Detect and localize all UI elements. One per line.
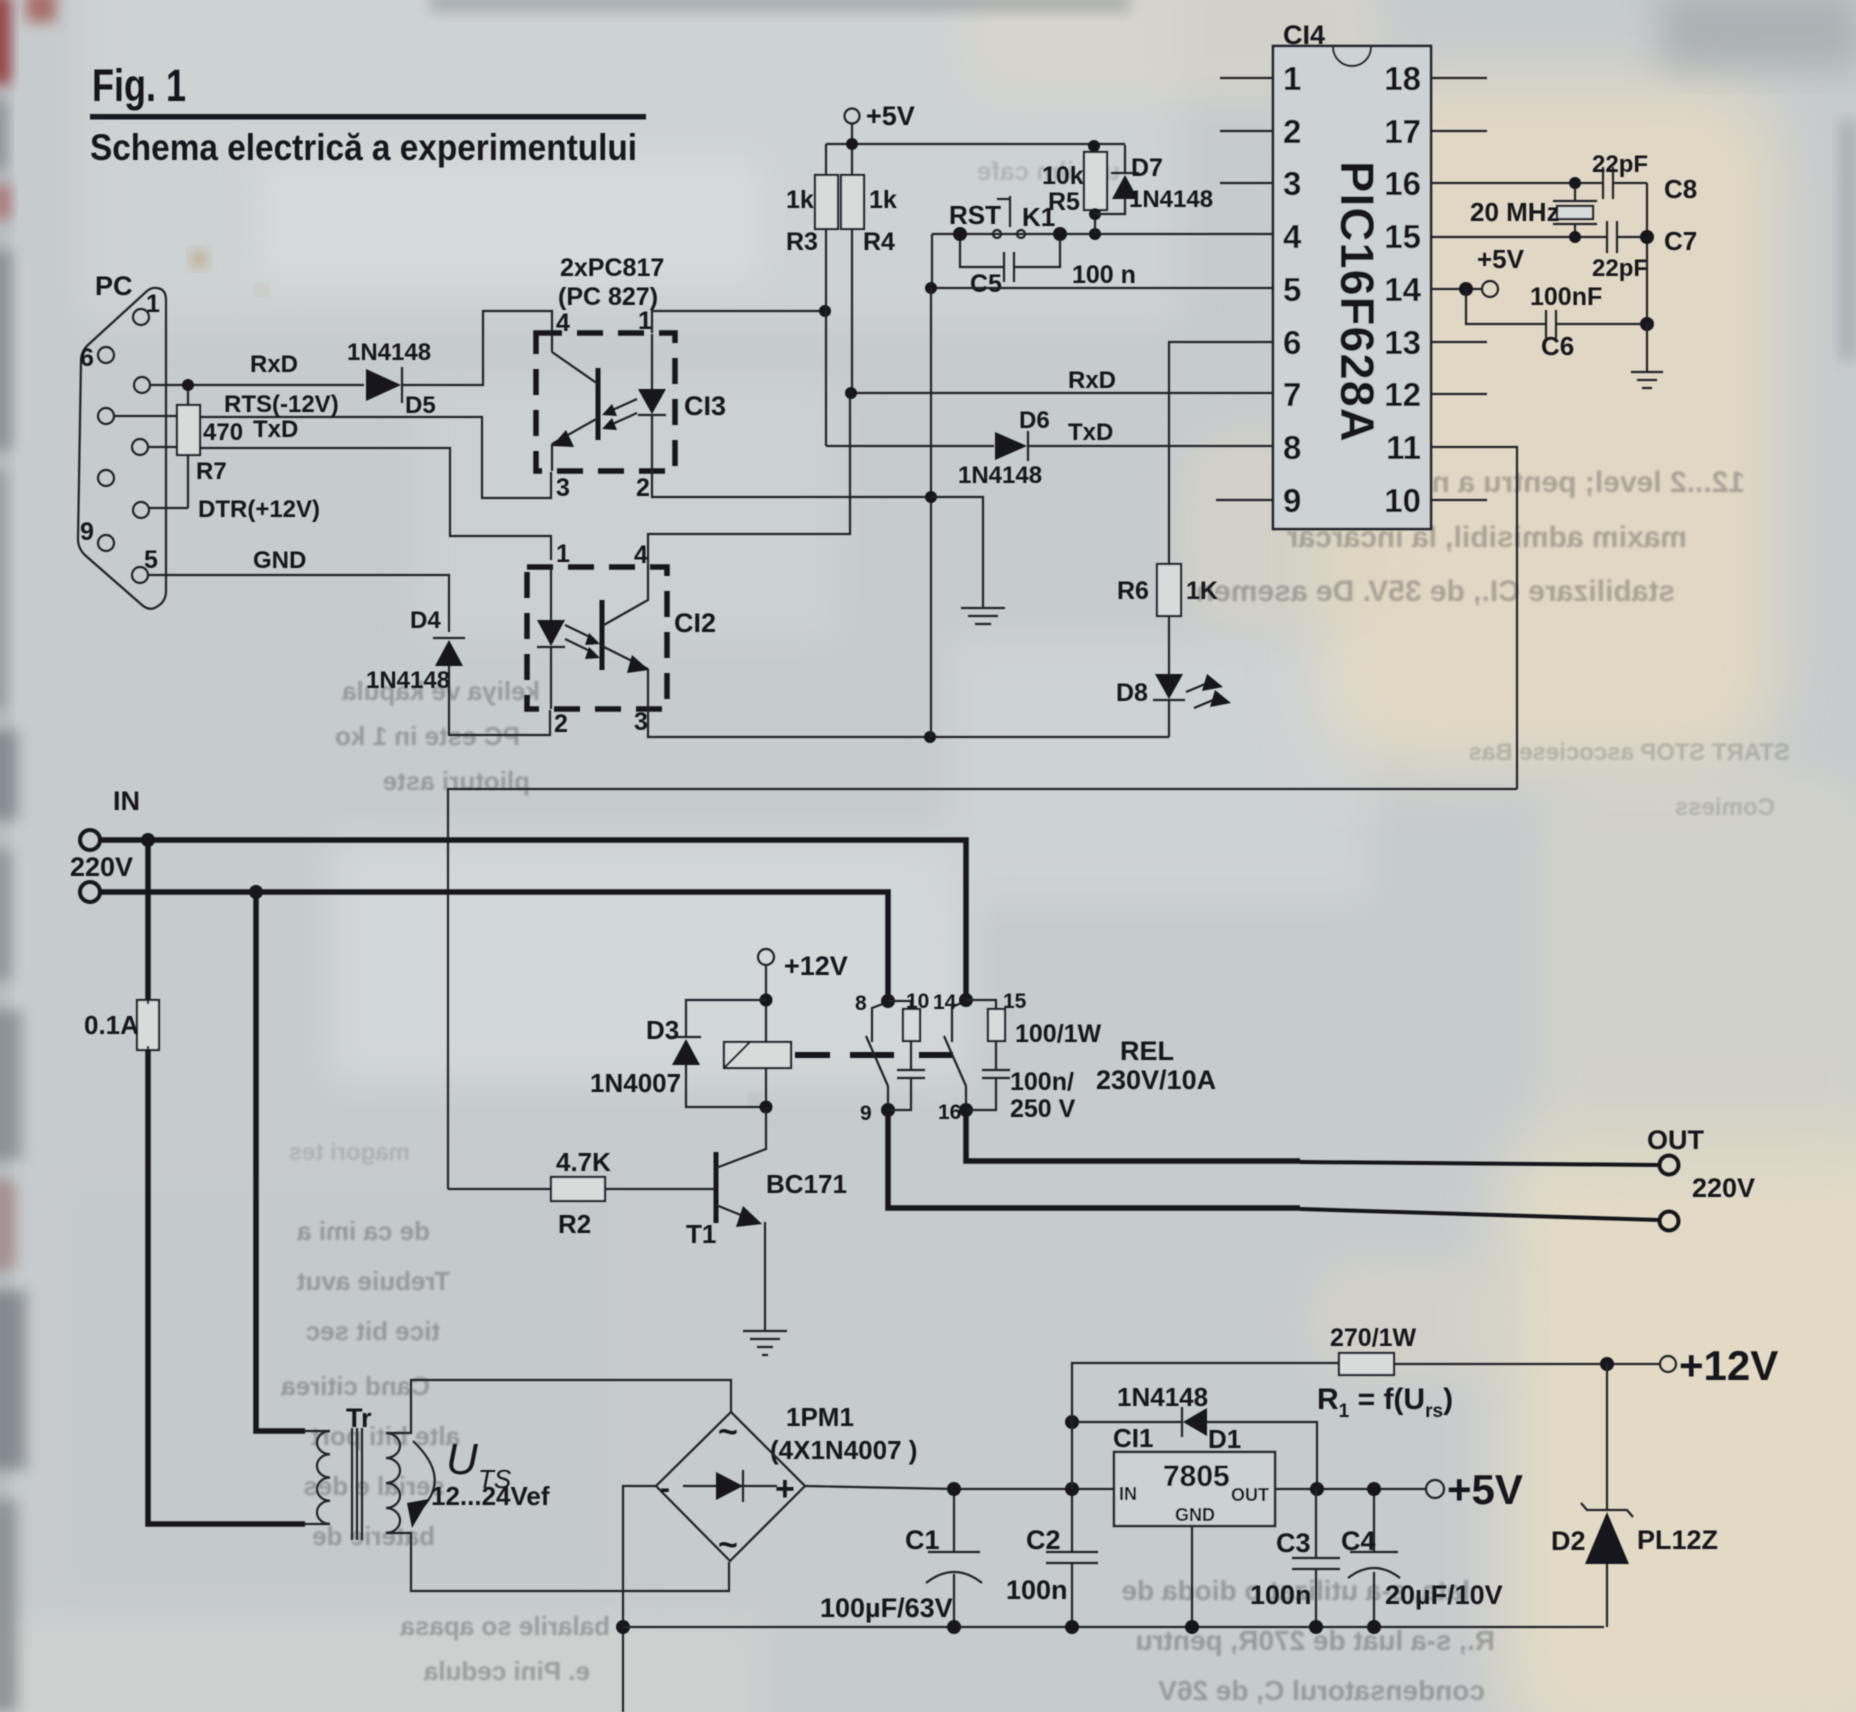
svg-text:5: 5 bbox=[144, 546, 158, 574]
svg-text:10: 10 bbox=[1384, 482, 1421, 519]
svg-text:20 MHz: 20 MHz bbox=[1470, 197, 1560, 227]
CI4 notch bbox=[1333, 47, 1371, 66]
svg-text:RST: RST bbox=[949, 200, 1001, 230]
CI3 dashed body bbox=[536, 333, 675, 471]
node RST left bbox=[953, 227, 967, 241]
svg-text:100 n: 100 n bbox=[1072, 261, 1136, 289]
+5V output terminal bbox=[1426, 1480, 1444, 1498]
CI3 phototransistor bbox=[551, 334, 553, 471]
wire ground bus down bbox=[930, 288, 932, 737]
svg-text:+5V: +5V bbox=[866, 101, 915, 131]
svg-text:Fig. 1: Fig. 1 bbox=[92, 60, 186, 111]
diode D7 1N4148 bbox=[1095, 145, 1125, 214]
svg-text:9: 9 bbox=[80, 518, 94, 546]
resistor R7 470 bbox=[187, 391, 189, 405]
resistor R5 10k bbox=[1084, 152, 1107, 210]
svg-text:5: 5 bbox=[1283, 271, 1301, 308]
svg-text:CI3: CI3 bbox=[684, 391, 726, 421]
svg-text:2: 2 bbox=[636, 474, 650, 502]
svg-text:Comiess: Comiess bbox=[1675, 794, 1775, 821]
+5V terminal bbox=[845, 109, 860, 124]
svg-text:de ca imi a: de ca imi a bbox=[297, 1216, 430, 1246]
pin 8 bbox=[98, 470, 114, 486]
node CI3 pin1 / R3 bbox=[819, 305, 831, 317]
pin 17 stub bbox=[1431, 130, 1487, 132]
svg-text:BC171: BC171 bbox=[766, 1169, 847, 1199]
svg-text:GND: GND bbox=[1175, 1505, 1215, 1525]
svg-text:17: 17 bbox=[1384, 113, 1421, 150]
svg-text:6: 6 bbox=[80, 344, 94, 372]
svg-text:magori tes: magori tes bbox=[289, 1139, 410, 1166]
svg-text:C7: C7 bbox=[1664, 226, 1697, 256]
IN terminal L bbox=[80, 830, 100, 850]
svg-text:100nF: 100nF bbox=[1530, 283, 1602, 311]
svg-text:PL12Z: PL12Z bbox=[1637, 1525, 1718, 1555]
wire pin16 to C8/crystal bbox=[1431, 182, 1647, 184]
node coil bottom / T1 collector bbox=[760, 1101, 773, 1114]
svg-text:8: 8 bbox=[1283, 429, 1301, 466]
diode D5 1N4148 bbox=[366, 369, 401, 401]
svg-text:Trebuie avut: Trebuie avut bbox=[297, 1266, 450, 1296]
OUT terminal N bbox=[1660, 1212, 1679, 1231]
node pole A top bbox=[959, 993, 973, 1007]
resistor R6 1K bbox=[1157, 564, 1181, 616]
wire +12V to coil bbox=[765, 965, 767, 1042]
svg-text:1N4007: 1N4007 bbox=[590, 1068, 681, 1098]
title underline bbox=[90, 114, 646, 120]
svg-text:(4X1N4007 ): (4X1N4007 ) bbox=[770, 1435, 917, 1465]
svg-text:D3: D3 bbox=[646, 1015, 679, 1045]
CI2 LED bbox=[550, 567, 552, 709]
ground symbol (logic) bbox=[961, 608, 1005, 624]
svg-text:RxD: RxD bbox=[250, 351, 298, 378]
node RxD/R7 junction bbox=[182, 379, 194, 391]
relay coil bbox=[724, 1042, 791, 1068]
wire +5V terminal to rail bbox=[851, 124, 853, 144]
node pole B top bbox=[881, 994, 895, 1008]
D8 light arrows bbox=[1186, 682, 1218, 708]
svg-text:1N4148: 1N4148 bbox=[366, 667, 450, 694]
svg-text:+5V: +5V bbox=[1447, 1466, 1523, 1513]
svg-text:OUT: OUT bbox=[1647, 1125, 1705, 1155]
wire IN node to +12V rail bbox=[1072, 1363, 1660, 1489]
wire PIC pin5 VSS to ground bbox=[930, 287, 1273, 289]
fuse F1 0.1A bbox=[145, 840, 151, 1000]
Tr primary winding bbox=[305, 1431, 330, 1524]
svg-text:REL: REL bbox=[1120, 1036, 1174, 1066]
diode D6 1N4148 bbox=[995, 432, 1027, 460]
node C7/ground leg bbox=[1640, 230, 1654, 244]
svg-text:9: 9 bbox=[860, 1102, 872, 1125]
svg-text:+12V: +12V bbox=[784, 951, 848, 981]
wire D5 to CI3 pin4 bbox=[402, 311, 552, 385]
svg-text:+: + bbox=[775, 1470, 795, 1508]
node fuse tap bbox=[141, 833, 155, 847]
svg-text:4: 4 bbox=[634, 541, 648, 569]
CI4 body bbox=[1273, 46, 1431, 529]
svg-text:100/1W: 100/1W bbox=[1015, 1020, 1102, 1048]
svg-text:e. Pini cedula: e. Pini cedula bbox=[423, 1656, 590, 1686]
svg-text:12: 12 bbox=[1384, 376, 1421, 413]
wire +5V rail bbox=[826, 143, 1125, 145]
switch K1 contacts bbox=[993, 230, 1001, 238]
svg-text:D6: D6 bbox=[1019, 407, 1050, 434]
node crystal bottom bbox=[1569, 231, 1581, 243]
svg-text:RTS(-12V): RTS(-12V) bbox=[224, 391, 339, 418]
crystal X1 20 MHz bbox=[1553, 189, 1597, 237]
svg-text:22pF: 22pF bbox=[1592, 255, 1648, 282]
svg-text:1N4148: 1N4148 bbox=[1117, 1382, 1208, 1412]
wire 7805 GND to 0V bbox=[1191, 1526, 1193, 1627]
svg-text:230V/10A: 230V/10A bbox=[1096, 1065, 1216, 1095]
node RST right bbox=[1053, 227, 1067, 241]
pin 7 (RTS) bbox=[98, 408, 114, 424]
node pole B bottom (9) bbox=[881, 1103, 895, 1117]
svg-text:C5: C5 bbox=[970, 270, 1002, 298]
svg-text:1: 1 bbox=[556, 540, 570, 568]
wire pin11 rail to R2 bbox=[448, 789, 1517, 1189]
svg-text:C6: C6 bbox=[1541, 331, 1574, 361]
svg-text:6: 6 bbox=[1283, 324, 1301, 361]
svg-text:IN: IN bbox=[1119, 1484, 1137, 1504]
svg-text:270/1W: 270/1W bbox=[1330, 1324, 1417, 1352]
svg-text:2: 2 bbox=[1283, 113, 1301, 150]
svg-text:R5: R5 bbox=[1048, 188, 1080, 216]
svg-text:Schema electrică a experimentu: Schema electrică a experimentului bbox=[90, 127, 637, 168]
node C6/ground leg bbox=[1640, 317, 1654, 331]
capacitor C7 22pF bbox=[1607, 221, 1617, 253]
node pin5/ground bus bbox=[925, 282, 937, 294]
svg-text:DTR(+12V): DTR(+12V) bbox=[198, 496, 320, 523]
svg-text:2xPC817: 2xPC817 bbox=[560, 254, 664, 282]
diode D3 1N4007 bbox=[686, 1000, 766, 1036]
svg-text:4: 4 bbox=[556, 309, 570, 337]
relay contact pole A terminal 8 bbox=[952, 1001, 966, 1042]
svg-text:9: 9 bbox=[1283, 482, 1301, 519]
svg-text:D5: D5 bbox=[405, 392, 436, 419]
wire 220V live bbox=[101, 840, 966, 1000]
svg-text:10: 10 bbox=[906, 990, 929, 1013]
svg-text:stabilizare CI., de 35V. De as: stabilizare CI., de 35V. De asemen bbox=[1196, 575, 1675, 608]
pin 9 bbox=[98, 535, 114, 551]
capacitor C2 100n bbox=[1071, 1489, 1073, 1552]
svg-text:+5V: +5V bbox=[1477, 244, 1525, 274]
wire RxD to PIC pin7 bbox=[852, 392, 1273, 394]
svg-text:3: 3 bbox=[556, 474, 570, 502]
wire RxD from DB9 pin2 to D5 bbox=[150, 384, 364, 386]
wire TxD from DB9 pin3 to CI2 pin1 bbox=[148, 447, 551, 560]
svg-text:C1: C1 bbox=[905, 1525, 940, 1555]
stains bbox=[192, 252, 206, 266]
svg-text:R3: R3 bbox=[786, 228, 818, 256]
snubber A capacitor 100n/250V bbox=[982, 1070, 1010, 1078]
CI2 dashed body bbox=[527, 567, 667, 709]
svg-text:TxD: TxD bbox=[253, 416, 298, 443]
svg-text:+12V: +12V bbox=[1679, 1342, 1778, 1389]
wire RTS from DB9 pin7 to CI3 pin3 bbox=[114, 416, 551, 498]
svg-text:7: 7 bbox=[1283, 376, 1301, 413]
svg-text:CI2: CI2 bbox=[674, 608, 716, 638]
ground symbol (oscillator) bbox=[1631, 372, 1663, 388]
svg-text:16: 16 bbox=[938, 1101, 961, 1124]
pin 2 stub bbox=[1220, 130, 1273, 132]
wire bridge plus to regulator input bbox=[805, 1486, 1114, 1489]
pin 3 (TxD) bbox=[132, 439, 148, 455]
node crystal top bbox=[1569, 177, 1581, 189]
svg-text:TxD: TxD bbox=[1068, 419, 1113, 446]
CI3 light arrows bbox=[608, 399, 637, 426]
pin 9 stub bbox=[1216, 499, 1273, 501]
svg-text:1N4148: 1N4148 bbox=[1129, 186, 1213, 213]
snubber B capacitor bbox=[897, 1070, 925, 1078]
pin 3 stub bbox=[1220, 182, 1273, 184]
pin 1 bbox=[133, 309, 149, 325]
wire 7805 OUT +5V bbox=[1275, 1488, 1426, 1490]
+12V terminal bbox=[1660, 1356, 1676, 1372]
wire TxD/D6 to PIC pin8 bbox=[826, 445, 1273, 447]
+12V terminal (relay) bbox=[758, 949, 774, 965]
snubber A resistor 100/1W bbox=[966, 1000, 996, 1009]
pin 6 wire to R6/D8 bbox=[1169, 342, 1273, 564]
wire to oscillator ground bbox=[1646, 324, 1648, 371]
pin 4 (DTR) bbox=[133, 502, 149, 518]
node pole A bottom (16) bbox=[959, 1103, 973, 1117]
svg-text:Tr: Tr bbox=[346, 1403, 372, 1433]
svg-text:R2: R2 bbox=[558, 1209, 591, 1239]
svg-text:U: U bbox=[446, 1435, 478, 1484]
svg-text:100µF/63V: 100µF/63V bbox=[820, 1593, 953, 1623]
svg-text:T1: T1 bbox=[686, 1219, 716, 1249]
svg-text:D4: D4 bbox=[410, 607, 441, 634]
capacitor C6 100nF bbox=[1466, 289, 1647, 324]
pin 18 stub bbox=[1431, 77, 1487, 79]
cream show-through patches bbox=[1320, 80, 1780, 770]
capacitor C8 22pF bbox=[1603, 167, 1613, 199]
node pin14 bbox=[1459, 282, 1473, 296]
pin 13 stub bbox=[1431, 341, 1487, 343]
svg-text:PIC16F628A: PIC16F628A bbox=[1331, 161, 1384, 443]
snubber B resistor bbox=[888, 1001, 911, 1009]
capacitor C3 100n bbox=[1292, 1489, 1340, 1627]
wire CI2 pin4 collector to RxD net bbox=[648, 393, 850, 567]
svg-text:D2: D2 bbox=[1551, 1526, 1586, 1556]
svg-text:1k: 1k bbox=[786, 186, 814, 214]
wire RST to ground bus bbox=[931, 234, 933, 288]
transistor T1 BC171 bbox=[714, 1152, 719, 1223]
svg-text:baterie de: baterie de bbox=[312, 1521, 435, 1551]
pin 10 stub bbox=[1431, 499, 1487, 501]
svg-text:OUT: OUT bbox=[1231, 1485, 1269, 1505]
node 0V rail / bridge bbox=[616, 1620, 630, 1634]
node ground bus / CI2 pin3 bbox=[924, 731, 936, 743]
relay contact pole A arm bbox=[944, 1036, 966, 1086]
node R5/D7 junction bbox=[1089, 208, 1101, 220]
svg-text:100n: 100n bbox=[1006, 1575, 1068, 1605]
svg-text:12...24Vef: 12...24Vef bbox=[431, 1481, 550, 1511]
svg-text:GND: GND bbox=[253, 547, 306, 574]
relay contact pole B arm bbox=[866, 1036, 888, 1086]
svg-text:1k: 1k bbox=[869, 186, 897, 214]
svg-text:C3: C3 bbox=[1276, 1528, 1311, 1558]
svg-text:20µF/10V: 20µF/10V bbox=[1385, 1580, 1503, 1610]
OUT terminal L bbox=[1660, 1156, 1679, 1175]
wire oscillator ground leg bbox=[1646, 183, 1648, 324]
capacitor C5 100n bbox=[960, 241, 1060, 267]
capacitor C4 20uF/10V bbox=[1373, 1489, 1375, 1552]
wire R4 bottom to RxD net bbox=[851, 229, 853, 393]
svg-text:15: 15 bbox=[1003, 990, 1027, 1013]
svg-text:RxD: RxD bbox=[1068, 367, 1116, 394]
node D2 top bbox=[1600, 1357, 1614, 1371]
+5V terminal at pin14 bbox=[1482, 281, 1498, 297]
ground symbol (T1 emitter) bbox=[743, 1331, 787, 1355]
wire GND from DB9 pin5 to D4 bbox=[148, 575, 449, 632]
svg-text:tice bit sec: tice bit sec bbox=[306, 1316, 440, 1346]
U_TS voltage arrow bbox=[413, 1441, 435, 1509]
svg-text:~: ~ bbox=[718, 1413, 738, 1451]
node R5/D7 bottom on MCLR bbox=[1089, 228, 1101, 240]
wire pin14 VDD bbox=[1431, 288, 1481, 290]
CI2 phototransistor bbox=[600, 600, 605, 670]
svg-text:14: 14 bbox=[1384, 271, 1421, 308]
resistor R2 4.7K bbox=[448, 1188, 551, 1190]
svg-text:3: 3 bbox=[1283, 165, 1301, 202]
svg-text:PC: PC bbox=[95, 271, 133, 301]
0V rail bbox=[623, 1626, 1604, 1628]
resistor R3 1k bbox=[825, 144, 827, 175]
svg-text:1K: 1K bbox=[1186, 577, 1218, 605]
svg-text:condensatorul C, de 26V: condensatorul C, de 26V bbox=[1158, 1675, 1485, 1706]
pin 12 stub bbox=[1431, 393, 1487, 395]
svg-text:Cand citirea: Cand citirea bbox=[281, 1371, 430, 1401]
node transformer tap bbox=[249, 885, 263, 899]
wire 220V neutral bbox=[101, 892, 888, 1001]
svg-text:1PM1: 1PM1 bbox=[786, 1402, 854, 1432]
svg-text:13: 13 bbox=[1384, 324, 1421, 361]
svg-text:22pF: 22pF bbox=[1592, 151, 1648, 178]
node coil/D3 top bbox=[760, 994, 773, 1007]
wire secondary top to bridge bbox=[386, 1380, 731, 1433]
svg-text:16: 16 bbox=[1384, 165, 1421, 202]
svg-text:470: 470 bbox=[203, 419, 243, 446]
svg-text:3: 3 bbox=[634, 708, 648, 736]
pin 1 stub bbox=[1220, 77, 1273, 79]
pin 11 wire to relay driver rail bbox=[1431, 447, 1517, 789]
svg-text:250 V: 250 V bbox=[1010, 1095, 1076, 1123]
svg-text:R4: R4 bbox=[863, 228, 895, 256]
svg-text:11: 11 bbox=[1386, 429, 1421, 466]
svg-text:8: 8 bbox=[855, 992, 867, 1015]
svg-text:1N4148: 1N4148 bbox=[958, 462, 1042, 489]
svg-text:~: ~ bbox=[718, 1526, 738, 1564]
wire R3 bottom to D6/TxD net bbox=[825, 229, 827, 446]
wire secondary bottom to bridge bbox=[386, 1533, 729, 1591]
svg-text:C8: C8 bbox=[1664, 174, 1697, 204]
pin 2 (RxD) bbox=[134, 377, 150, 393]
svg-text:220V: 220V bbox=[1692, 1173, 1755, 1203]
node +5V/R5 bbox=[1088, 140, 1100, 152]
CI3 LED bbox=[651, 334, 653, 471]
svg-text:15: 15 bbox=[1384, 218, 1421, 255]
svg-text:C2: C2 bbox=[1026, 1525, 1061, 1555]
svg-text:1N4148: 1N4148 bbox=[347, 339, 431, 366]
svg-text:1: 1 bbox=[638, 307, 652, 335]
bridge diamond bbox=[656, 1412, 805, 1561]
svg-text:10k: 10k bbox=[1042, 162, 1084, 190]
svg-text:IN: IN bbox=[113, 786, 140, 816]
svg-text:2: 2 bbox=[554, 710, 568, 738]
ghost show-through text (mirrored print from reverse page) bbox=[281, 156, 1790, 1706]
svg-text:D8: D8 bbox=[1116, 679, 1148, 707]
node +5V/R4 bbox=[846, 138, 858, 150]
svg-text:C4: C4 bbox=[1341, 1526, 1376, 1556]
wire OUT neutral bbox=[888, 1110, 1300, 1208]
pin 6 bbox=[98, 347, 114, 363]
svg-text:100n: 100n bbox=[1250, 1580, 1312, 1610]
svg-text:4.7K: 4.7K bbox=[556, 1147, 611, 1177]
capacitor C1 100uF/63V bbox=[953, 1489, 955, 1552]
wire neutral to transformer primary bbox=[256, 892, 305, 1431]
pin 5 (GND) bbox=[132, 567, 148, 583]
svg-text:220V: 220V bbox=[70, 852, 133, 882]
svg-text:R6: R6 bbox=[1117, 577, 1149, 605]
svg-text:1: 1 bbox=[146, 290, 160, 318]
wire to ground symbol bbox=[931, 497, 983, 607]
svg-text:1: 1 bbox=[1283, 60, 1301, 97]
wire pin15 to C7/crystal bbox=[1431, 236, 1647, 238]
LED D8 bbox=[1155, 674, 1183, 699]
zener D2 PL12Z bbox=[1606, 1364, 1608, 1510]
diode D1 1N4148 over regulator bbox=[1072, 1422, 1317, 1489]
wire CI3 pin1 to +5V pull-ups bbox=[652, 311, 825, 333]
wire bridge minus to 0V rail bbox=[623, 1486, 656, 1712]
Tr secondary winding bbox=[386, 1433, 400, 1533]
resistor R1 270/1W bbox=[1339, 1353, 1394, 1375]
diode D4 1N4148 (across CI2 LED) bbox=[433, 637, 465, 639]
svg-text:D7: D7 bbox=[1131, 154, 1163, 182]
svg-text:0.1A: 0.1A bbox=[84, 1010, 139, 1040]
svg-text:4: 4 bbox=[1283, 218, 1302, 255]
svg-text:balarile so apasa: balarile so apasa bbox=[400, 1611, 610, 1641]
Tr core bbox=[352, 1428, 362, 1540]
svg-text:7805: 7805 bbox=[1163, 1460, 1230, 1493]
CI2 light arrows bbox=[565, 625, 594, 653]
wire DTR from DB9 pin4 to R7 bbox=[149, 507, 188, 509]
wire CI2 pin3 emitter to ground bus / D8 return bbox=[648, 709, 1169, 737]
wire MCLR (pin4) bbox=[932, 233, 1273, 235]
IN terminal N bbox=[80, 882, 100, 902]
resistor R4 1k bbox=[851, 150, 853, 175]
svg-text:14: 14 bbox=[933, 991, 957, 1014]
bridge inner diode bbox=[683, 1485, 777, 1487]
relay contact pole B terminal 14 bbox=[872, 1002, 888, 1042]
svg-text:100n/: 100n/ bbox=[1010, 1068, 1074, 1096]
wire OUT live bbox=[966, 1110, 1300, 1161]
relay actuator dashed link bbox=[795, 1052, 953, 1058]
svg-text:R7: R7 bbox=[196, 458, 227, 485]
node RxD/R4/CI2 bbox=[845, 387, 857, 399]
svg-text:CI1: CI1 bbox=[1113, 1423, 1153, 1453]
svg-text:18: 18 bbox=[1384, 60, 1421, 97]
node ground tap bbox=[925, 491, 937, 503]
svg-text:alte biti port: alte biti port bbox=[311, 1421, 460, 1451]
wire CI3 pin2 to ground bus bbox=[652, 471, 930, 497]
svg-text:-: - bbox=[660, 1472, 670, 1505]
svg-text:plioturi aste: plioturi aste bbox=[383, 766, 530, 796]
svg-text:D1: D1 bbox=[1208, 1424, 1241, 1454]
